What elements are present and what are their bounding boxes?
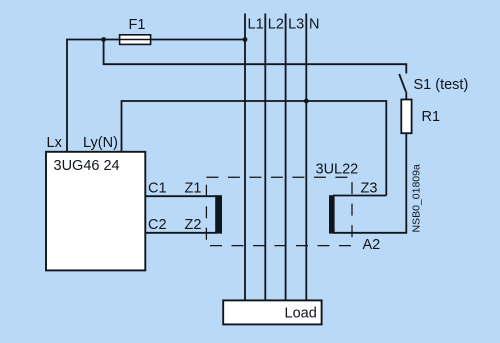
svg-text:C2: C2 — [148, 217, 167, 233]
wire: phase line L1 vertical — [244, 14, 246, 301]
svg-text:N: N — [309, 17, 319, 33]
junction dot on F1 wire — [101, 37, 106, 42]
electrode bar right (Z3/A2) — [329, 195, 335, 233]
svg-text:F1: F1 — [129, 17, 146, 33]
fuse F1 body — [120, 35, 151, 45]
svg-text:3UG46 24: 3UG46 24 — [54, 158, 120, 174]
electrode bar left (Z1/Z2) — [215, 195, 222, 233]
svg-text:C1: C1 — [148, 180, 167, 196]
wire: phase line L3 vertical — [285, 14, 287, 301]
wire: switch S1 lower stub to R1 — [405, 92, 407, 100]
svg-text:Ly(N): Ly(N) — [83, 135, 118, 151]
svg-text:Z3: Z3 — [361, 180, 378, 196]
svg-text:S1 (test): S1 (test) — [414, 77, 469, 93]
svg-text:A2: A2 — [363, 237, 381, 253]
probe unit 3UL22 dashed outline — [206, 177, 352, 245]
wire: C1 connection from box to electrode — [145, 195, 217, 197]
svg-text:L3: L3 — [288, 17, 304, 33]
svg-text:L1: L1 — [248, 17, 264, 33]
svg-text:R1: R1 — [422, 109, 441, 125]
wire: phase line L2 vertical — [264, 14, 266, 301]
svg-text:Z1: Z1 — [185, 180, 202, 196]
junction dot on N at Ly wire — [304, 99, 309, 104]
svg-text:Load: Load — [285, 306, 317, 322]
wire: branch from junction A down and right to switch S1 — [104, 40, 407, 74]
resistor R1 body — [401, 100, 411, 134]
wire: C2 connection from box to electrode — [145, 232, 217, 234]
wire: Z3 horizontal connection — [333, 195, 386, 197]
svg-text:Z2: Z2 — [185, 217, 202, 233]
svg-text:Lx: Lx — [47, 135, 63, 151]
load box — [223, 300, 321, 324]
wire: switch blade of S1 — [399, 74, 406, 92]
svg-text:L2: L2 — [268, 17, 284, 33]
wire: F1 branch from L1 to Lx corner — [67, 40, 245, 152]
svg-text:3UL22: 3UL22 — [316, 162, 359, 178]
wire: Ly(N) branch to N junction and down to Z3 — [122, 101, 387, 196]
junction dot on L1 at F1 wire — [243, 37, 248, 42]
wire: A2 horizontal connection to R1 bottom — [333, 133, 406, 233]
wire: neutral line N vertical — [305, 14, 307, 301]
svg-text:NSB0_01809a: NSB0_01809a — [411, 164, 423, 232]
relay box 3UG46 24 — [46, 152, 145, 271]
